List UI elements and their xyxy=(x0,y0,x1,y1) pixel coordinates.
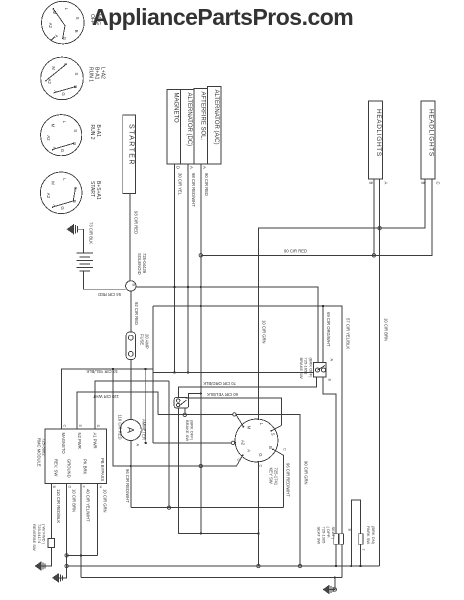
svg-text:STARTER: STARTER xyxy=(128,124,135,166)
svg-text:G: G xyxy=(258,453,263,456)
label SEAT SW xyxy=(317,527,336,545)
wire h8 60 CIR YEL/BLK xyxy=(186,398,282,426)
label PARK SW xyxy=(366,526,376,545)
svg-text:57 CIR YEL/BLK: 57 CIR YEL/BLK xyxy=(346,318,351,349)
wire headlight1 A down long 10 CIR BRN xyxy=(378,179,380,566)
svg-text:725-1658: 725-1658 xyxy=(304,358,309,376)
svg-text:D: D xyxy=(176,166,181,169)
svg-text:A: A xyxy=(384,182,389,185)
solenoid xyxy=(126,281,136,291)
svg-text:BRAKE SW: BRAKE SW xyxy=(185,420,190,441)
svg-text:A: A xyxy=(189,166,194,169)
svg-text:GROUND: GROUND xyxy=(67,459,72,478)
svg-text:98 CIR RED/WHT: 98 CIR RED/WHT xyxy=(191,173,196,207)
svg-text:HEADLIGHTS: HEADLIGHTS xyxy=(428,109,435,157)
svg-text:10 CIR GRN: 10 CIR GRN xyxy=(261,320,266,344)
svg-text:A: A xyxy=(330,359,334,362)
wire h9 with 90 CIR GRN drop xyxy=(158,413,233,415)
wire h507 xyxy=(131,507,284,509)
starter box xyxy=(123,115,136,194)
svg-text:725-04174: 725-04174 xyxy=(37,524,42,544)
svg-text:H: H xyxy=(98,486,102,489)
wire 92 CIR RED solenoid to fuse xyxy=(130,291,132,332)
svg-text:B+A1: B+A1 xyxy=(94,67,100,80)
svg-text:60 CIR YEL/BLK: 60 CIR YEL/BLK xyxy=(207,392,238,397)
svg-text:KEY SW: KEY SW xyxy=(269,468,274,484)
label REVERSE SW xyxy=(32,524,47,551)
switch position label RUN 2 xyxy=(89,125,101,140)
ammeter xyxy=(120,420,141,441)
wire x145.7 riser xyxy=(145,369,147,443)
reverse switch xyxy=(48,539,55,548)
svg-text:L+A2: L+A2 xyxy=(100,67,106,79)
svg-text:E: E xyxy=(78,425,82,428)
svg-text:A1 PWR: A1 PWR xyxy=(93,433,98,449)
alternator group box ALTERNATOR (A/C) xyxy=(208,87,222,165)
svg-text:S: S xyxy=(270,433,275,436)
svg-text:SOLENOID: SOLENOID xyxy=(137,253,142,275)
svg-text:(BRK OFF): (BRK OFF) xyxy=(308,358,313,379)
wire headlight1 B down xyxy=(373,179,375,255)
switch position circle OFF xyxy=(42,1,85,44)
alternator group box ALTERNATOR (DC) xyxy=(181,90,195,165)
key A2 lead h10 xyxy=(234,442,235,444)
svg-text:J: J xyxy=(361,549,365,551)
label FUSE 20 AMP xyxy=(140,334,150,349)
svg-text:SEAT ): SEAT ) xyxy=(331,527,336,540)
svg-text:F: F xyxy=(82,486,86,489)
battery xyxy=(76,253,93,271)
svg-text:S: S xyxy=(96,425,100,428)
svg-text:ALTERNATOR (A/C): ALTERNATOR (A/C) xyxy=(213,90,219,145)
svg-text:A: A xyxy=(136,444,140,447)
svg-text:B+A1: B+A1 xyxy=(95,125,101,138)
svg-text:M: M xyxy=(50,181,55,185)
wire 30 CIR YEL xyxy=(174,164,176,372)
brake switch center xyxy=(174,392,202,416)
switch position label START xyxy=(89,181,101,200)
svg-text:110 CIR RED: 110 CIR RED xyxy=(118,415,123,440)
svg-text:RUN 1: RUN 1 xyxy=(88,67,94,82)
wire x169 xyxy=(168,381,170,508)
key B lead 96 CIR RED/WHT xyxy=(273,449,284,507)
wire x178.4 xyxy=(178,408,258,533)
svg-text:M: M xyxy=(51,66,56,70)
headlights box 2 xyxy=(421,101,435,179)
svg-text:REVERSE SW: REVERSE SW xyxy=(32,524,37,551)
svg-text:B: B xyxy=(132,284,136,287)
svg-text:L: L xyxy=(64,8,69,11)
svg-text:S: S xyxy=(73,129,78,132)
svg-text:C: C xyxy=(259,465,263,468)
ground below module xyxy=(52,573,62,582)
bus2 xyxy=(81,577,342,579)
svg-text:90 CIR GRN: 90 CIR GRN xyxy=(303,461,308,485)
svg-text:10 CIR BRN: 10 CIR BRN xyxy=(71,489,76,512)
wire 110 CIR RED/BLK xyxy=(50,484,52,539)
svg-text:SEAT SW: SEAT SW xyxy=(317,527,322,545)
module box xyxy=(45,429,107,484)
key G wire down xyxy=(257,462,259,566)
svg-text:MAGNETO: MAGNETO xyxy=(173,93,179,124)
svg-text:A: A xyxy=(126,427,136,433)
svg-text:90 CIR RED: 90 CIR RED xyxy=(204,173,209,196)
svg-text:L: L xyxy=(62,178,67,181)
wire join h555 xyxy=(67,554,98,556)
fuse xyxy=(126,332,135,360)
svg-text:A2: A2 xyxy=(48,23,53,29)
svg-text:A2: A2 xyxy=(241,440,246,446)
wire ammeter to h507 xyxy=(130,441,132,508)
wire module pin S up xyxy=(95,381,169,429)
svg-text:AppliancePartsPros.com: AppliancePartsPros.com xyxy=(92,4,353,30)
svg-text:B+S+A1: B+S+A1 xyxy=(95,181,101,200)
svg-text:(BRK OFF): (BRK OFF) xyxy=(190,420,195,441)
wire 90 CIR RED vertical xyxy=(200,164,202,533)
svg-text:HEADLIGHTS: HEADLIGHTS xyxy=(375,109,382,157)
bus1 ground bus xyxy=(67,565,380,567)
key S lead xyxy=(271,426,281,431)
wire h3 solenoid right xyxy=(136,287,318,363)
switch position label OFF M+G xyxy=(89,14,101,25)
svg-text:M: M xyxy=(247,426,252,430)
svg-text:C: C xyxy=(62,425,66,428)
svg-text:70 CIR ORG/BLK: 70 CIR ORG/BLK xyxy=(203,381,236,386)
svg-text:A: A xyxy=(247,449,252,452)
svg-text:A: A xyxy=(202,166,207,169)
svg-text:PARK SW: PARK SW xyxy=(366,526,371,544)
svg-text:C: C xyxy=(436,182,441,185)
svg-text:M: M xyxy=(50,124,55,128)
svg-text:BRAKE SW: BRAKE SW xyxy=(299,358,304,379)
wire 10 CIR GRN module xyxy=(97,484,99,556)
svg-text:40 CIR YEL/WHT: 40 CIR YEL/WHT xyxy=(86,489,91,522)
key A lead xyxy=(113,369,243,466)
svg-text:B: B xyxy=(369,182,374,185)
seat sw wires down xyxy=(335,544,337,566)
wire h2 90 CIR RED to headlight2 xyxy=(201,179,432,255)
svg-text:110 CIR RED/BLK: 110 CIR RED/BLK xyxy=(56,489,61,523)
svg-text:(BRK ON): (BRK ON) xyxy=(371,526,376,545)
label SOLENOID 725-04439 xyxy=(137,253,147,275)
svg-text:725-1305: 725-1305 xyxy=(321,527,326,545)
svg-text:G: G xyxy=(60,149,65,153)
svg-text:69 CIR ORG/WHT: 69 CIR ORG/WHT xyxy=(326,312,331,347)
svg-text:START: START xyxy=(89,181,95,197)
svg-text:L: L xyxy=(62,121,67,124)
svg-text:FUSE: FUSE xyxy=(140,334,145,345)
wire 40 CIR YEL/WHT xyxy=(80,484,82,578)
wire h6 70 CIR ORG/BLK xyxy=(178,377,316,397)
svg-text:725-3062: 725-3062 xyxy=(42,438,47,456)
wire starter to solenoid xyxy=(129,194,131,281)
label RMC MODULE xyxy=(37,438,47,467)
svg-text:( OPP.: ( OPP. xyxy=(326,527,331,539)
svg-text:10 CIR BRN: 10 CIR BRN xyxy=(384,318,389,341)
wire h5 57 CIR YEL/BLK xyxy=(62,369,314,429)
label BRAKE SW BRK ON xyxy=(299,358,314,379)
svg-text:10 CIR GRN: 10 CIR GRN xyxy=(102,489,107,513)
switch position circle RUN 2 xyxy=(41,115,82,156)
svg-text:RMC MODULE: RMC MODULE xyxy=(37,438,42,467)
ground top-left xyxy=(67,224,84,253)
svg-text:( W/ FWD ): ( W/ FWD ) xyxy=(42,524,47,545)
svg-text:725-04439: 725-04439 xyxy=(142,253,147,274)
svg-text:MAGNETO: MAGNETO xyxy=(61,433,66,455)
svg-text:N2 PWR: N2 PWR xyxy=(77,433,82,449)
label KEY SW 725-1741 xyxy=(269,468,279,486)
svg-text:93 CIR RED: 93 CIR RED xyxy=(134,211,139,234)
wire h7 120 CIR WHT xyxy=(77,392,158,429)
key switch xyxy=(234,418,278,462)
svg-text:S: S xyxy=(75,17,80,20)
svg-text:92 CIR RED: 92 CIR RED xyxy=(134,302,139,325)
svg-text:RUN 2: RUN 2 xyxy=(89,125,95,140)
svg-text:B: B xyxy=(74,30,79,33)
svg-text:90 CIR RED: 90 CIR RED xyxy=(284,249,307,254)
svg-text:A2: A2 xyxy=(46,193,51,199)
ground left of reverse sw xyxy=(35,562,45,571)
svg-text:73 CIR BLK: 73 CIR BLK xyxy=(89,222,94,244)
svg-text:96 CIR RED/WHT: 96 CIR RED/WHT xyxy=(285,463,290,497)
wire fuse to ammeter xyxy=(130,360,132,420)
svg-text:AFTERFIRE SOL.: AFTERFIRE SOL. xyxy=(200,92,206,141)
svg-text:A2: A2 xyxy=(46,135,51,141)
svg-text:D: D xyxy=(67,486,71,489)
svg-text:96 CIR RED/WHT: 96 CIR RED/WHT xyxy=(125,469,130,503)
svg-text:L: L xyxy=(259,423,264,426)
svg-text:30 CIR YEL: 30 CIR YEL xyxy=(178,173,183,196)
svg-text:20 AMP: 20 AMP xyxy=(145,334,150,349)
wire battery to solenoid 94 CIR RED xyxy=(83,271,125,289)
park sw wire down xyxy=(360,544,362,566)
svg-text:PB BYPASS: PB BYPASS xyxy=(100,458,105,481)
svg-text:B: B xyxy=(52,486,56,489)
label BRAKE SW BRK OFF xyxy=(185,420,195,441)
seat switch xyxy=(334,534,344,544)
brake switch right xyxy=(313,363,326,378)
wire 98 CIR RED/WHT xyxy=(187,164,189,372)
svg-text:94 CIR RED: 94 CIR RED xyxy=(98,292,121,297)
park sw top loop xyxy=(351,500,360,566)
svg-text:C: C xyxy=(283,448,287,451)
svg-text:B: B xyxy=(328,379,332,382)
alternator group box AFTERFIRE SOL. xyxy=(194,89,208,165)
svg-text:ALTERNATOR (DC): ALTERNATOR (DC) xyxy=(186,93,192,147)
headlights box 1 xyxy=(369,101,383,179)
wire reverse sw to ground xyxy=(40,548,51,567)
wire h4 to brake and seat xyxy=(153,306,342,534)
svg-text:REV. SW: REV. SW xyxy=(54,459,59,476)
park switch xyxy=(358,534,363,544)
svg-text:725-1741: 725-1741 xyxy=(274,468,279,486)
wire h1 headlight feed xyxy=(258,179,425,419)
switch position circle RUN 1 xyxy=(41,57,84,100)
switch position circle START xyxy=(40,172,82,214)
svg-text:120 CIR WHT: 120 CIR WHT xyxy=(92,394,119,399)
wire 10 CIR BRN module xyxy=(58,484,67,578)
alternator group box MAGNETO xyxy=(167,90,181,165)
svg-text:PK BRK: PK BRK xyxy=(83,459,88,475)
ground bottom right xyxy=(323,578,337,595)
key M lead to h9 xyxy=(236,414,244,426)
svg-text:G: G xyxy=(61,92,66,96)
svg-text:S: S xyxy=(74,72,79,75)
brake right B wire to seat xyxy=(323,377,336,534)
svg-text:G: G xyxy=(60,206,65,210)
switch position label RUN 1 xyxy=(88,67,106,82)
